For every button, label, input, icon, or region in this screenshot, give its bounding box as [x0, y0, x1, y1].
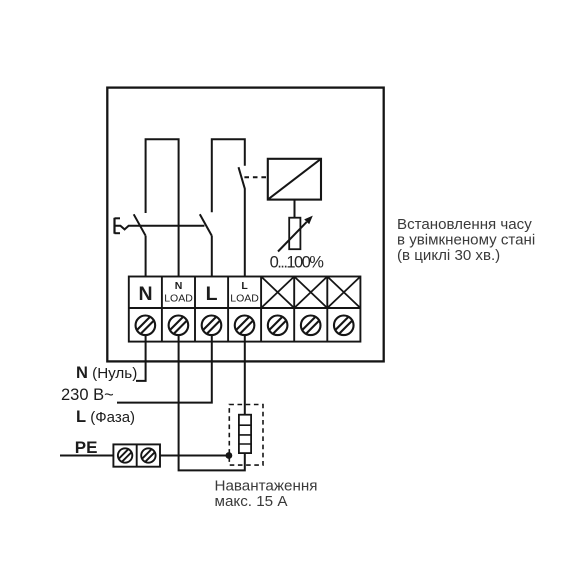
svg-text:L (Фаза): L (Фаза): [76, 408, 135, 426]
svg-text:макс. 15 А: макс. 15 А: [215, 493, 289, 510]
svg-text:LOAD: LOAD: [230, 293, 259, 305]
svg-text:в увімкненому стані: в увімкненому стані: [397, 231, 535, 248]
svg-text:230 В~: 230 В~: [61, 386, 114, 404]
svg-text:LOAD: LOAD: [164, 293, 193, 305]
svg-text:0...100%: 0...100%: [270, 254, 325, 272]
svg-text:PE: PE: [75, 438, 98, 457]
svg-text:L: L: [241, 280, 248, 292]
svg-text:L: L: [206, 283, 218, 305]
svg-text:(в циклі 30 хв.): (в циклі 30 хв.): [397, 247, 500, 264]
svg-text:N: N: [138, 283, 152, 305]
svg-text:N: N: [175, 280, 183, 292]
svg-text:N (Нуль): N (Нуль): [76, 364, 137, 382]
